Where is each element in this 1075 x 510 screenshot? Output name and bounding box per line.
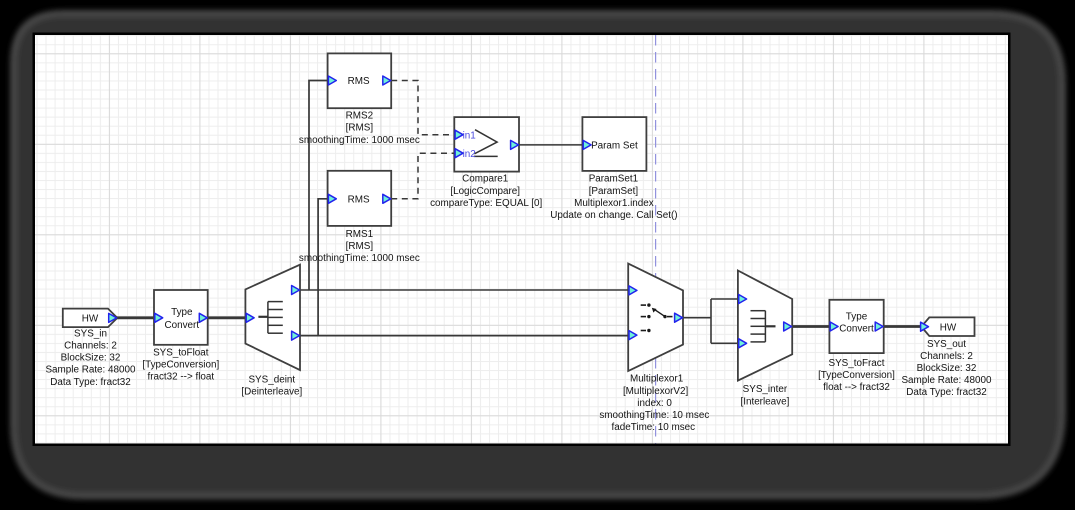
pin Compare1 out: [511, 140, 519, 149]
svg-text:[LogicCompare]: [LogicCompare]: [450, 186, 520, 197]
grid major: [35, 35, 1008, 444]
wire Multiplexor1 out to SYS_inter in1/in2: [683, 299, 738, 343]
svg-text:Data Type: fract32: Data Type: fract32: [906, 387, 987, 398]
svg-text:[ParamSet]: [ParamSet]: [589, 186, 639, 197]
pin SYS_toFract out: [875, 322, 883, 331]
svg-text:Channels: 2: Channels: 2: [64, 341, 117, 352]
pin ParamSet1 in: [583, 140, 591, 149]
svg-text:SYS_in: SYS_in: [74, 328, 107, 339]
deinterleave comb symbol: [258, 302, 282, 334]
svg-text:SYS_toFloat: SYS_toFloat: [153, 347, 209, 358]
wire HW_in to SYS_toFloat: [116, 316, 155, 319]
svg-text:in1: in1: [463, 130, 477, 141]
grid minor: [35, 35, 1008, 444]
svg-text:Sample Rate: 48000: Sample Rate: 48000: [901, 375, 992, 386]
wire Compare1 to ParamSet1: [519, 144, 582, 146]
block HW_in (SYS_in): [63, 309, 118, 328]
captions under blocks: [45, 111, 992, 434]
pin Multiplexor1 in2: [629, 331, 637, 340]
vertical blue dashed guide line: [655, 35, 657, 444]
svg-text:[MultiplexorV2]: [MultiplexorV2]: [623, 386, 689, 397]
pin RMS1 in: [328, 194, 336, 203]
svg-text:[Deinterleave]: [Deinterleave]: [241, 387, 302, 398]
svg-text:Update on change. Call Set(): Update on change. Call Set(): [550, 210, 677, 221]
svg-text:SYS_inter: SYS_inter: [743, 384, 788, 395]
pin RMS1 out: [383, 194, 391, 203]
pin HW_out in: [921, 322, 929, 331]
svg-text:Multiplexor1.index: Multiplexor1.index: [574, 198, 654, 209]
pin Multiplexor1 out: [675, 313, 683, 322]
svg-text:smoothingTime: 1000 msec: smoothingTime: 1000 msec: [299, 135, 420, 146]
block SYS_toFract: [829, 300, 883, 353]
block Compare1: [454, 117, 519, 172]
svg-text:[Interleave]: [Interleave]: [740, 396, 789, 407]
svg-text:RMS: RMS: [348, 195, 370, 206]
svg-text:Type: Type: [171, 307, 193, 318]
pin RMS2 out: [383, 76, 391, 85]
pin SYS_inter in2: [739, 339, 747, 348]
block SYS_toFloat: [154, 290, 208, 345]
svg-text:fract32 --> float: fract32 --> float: [147, 372, 214, 383]
pin Multiplexor1 in1: [629, 286, 637, 295]
pin SYS_toFloat out: [199, 313, 207, 322]
svg-text:[RMS]: [RMS]: [346, 123, 374, 134]
block RMS2: [328, 53, 392, 108]
svg-text:RMS: RMS: [348, 76, 370, 87]
pin HW_in out: [109, 313, 117, 322]
svg-text:compareType: EQUAL [0]: compareType: EQUAL [0]: [430, 198, 542, 209]
compare chevron symbol: [474, 130, 498, 157]
svg-text:Data Type: fract32: Data Type: fract32: [50, 377, 131, 388]
pin SYS_deint in: [246, 313, 254, 322]
svg-text:smoothingTime: 10 msec: smoothingTime: 10 msec: [599, 410, 709, 421]
svg-text:[RMS]: [RMS]: [346, 241, 374, 252]
pin SYS_inter in1: [739, 295, 747, 304]
pin Compare1 in1: [455, 130, 463, 139]
svg-text:RMS2: RMS2: [346, 111, 373, 122]
pins (aqua triangles with blue border): [109, 76, 929, 348]
wire branch to RMS1: [318, 199, 328, 336]
svg-text:Convert: Convert: [165, 320, 200, 331]
pin SYS_deint out2: [292, 331, 300, 340]
svg-text:index: 0: index: 0: [637, 398, 672, 409]
wire SYS_deint out1 to Multiplexor1 in1: [299, 289, 629, 291]
svg-text:Channels: 2: Channels: 2: [920, 351, 973, 362]
pin SYS_deint out1: [292, 286, 300, 295]
svg-text:SYS_deint: SYS_deint: [248, 374, 295, 385]
pin SYS_toFloat in: [155, 313, 163, 322]
svg-text:Convert: Convert: [839, 324, 874, 335]
block SYS_deint (Deinterleave trapezoid): [245, 265, 300, 370]
wire SYS_toFloat to SYS_deint: [207, 316, 247, 319]
svg-text:HW: HW: [940, 322, 957, 333]
block ParamSet1: [582, 117, 646, 171]
block HW_out (SYS_out): [921, 317, 974, 336]
block RMS1: [328, 171, 392, 226]
svg-text:BlockSize: 32: BlockSize: 32: [917, 363, 977, 374]
svg-text:[TypeConversion]: [TypeConversion]: [142, 359, 219, 370]
pin SYS_toFract in: [830, 322, 838, 331]
svg-text:RMS1: RMS1: [346, 229, 374, 240]
interleave comb symbol: [751, 311, 776, 342]
canvas with border: [34, 34, 1010, 445]
pin RMS2 in: [328, 76, 336, 85]
pin labels in1 in2: [463, 130, 477, 160]
pin Compare1 in2: [455, 149, 463, 158]
svg-text:fadeTime: 10 msec: fadeTime: 10 msec: [611, 422, 695, 433]
wire RMS2 to Compare1 in1 (control, dashed): [391, 81, 454, 135]
multiplexor switch symbol: [641, 303, 673, 332]
svg-text:Compare1: Compare1: [462, 174, 509, 185]
svg-text:BlockSize: 32: BlockSize: 32: [61, 353, 121, 364]
svg-text:SYS_out: SYS_out: [927, 339, 966, 350]
svg-text:HW: HW: [82, 314, 99, 325]
svg-text:float --> fract32: float --> fract32: [823, 382, 890, 393]
block SYS_inter (Interleave trapezoid): [738, 271, 792, 381]
in-block texts: [82, 76, 957, 334]
svg-text:Param Set: Param Set: [591, 141, 638, 152]
svg-text:Multiplexor1: Multiplexor1: [630, 374, 684, 385]
svg-text:SYS_toFract: SYS_toFract: [829, 358, 885, 369]
pin SYS_inter out: [784, 322, 792, 331]
wire SYS_deint out2 to Multiplexor1 in2: [299, 335, 629, 337]
wire SYS_inter to SYS_toFract: [791, 325, 830, 328]
wire RMS1 to Compare1 in2 (control, dashed): [391, 153, 454, 199]
svg-text:in2: in2: [463, 149, 476, 160]
block Multiplexor1 (trapezoid): [628, 264, 683, 371]
wire branch to RMS2: [309, 81, 328, 291]
svg-text:ParamSet1: ParamSet1: [589, 174, 639, 185]
svg-text:Sample Rate: 48000: Sample Rate: 48000: [45, 365, 136, 376]
wire SYS_toFract to HW_out: [883, 325, 921, 328]
svg-text:smoothingTime: 1000 msec: smoothingTime: 1000 msec: [299, 253, 420, 264]
svg-text:Type: Type: [846, 311, 868, 322]
svg-text:[TypeConversion]: [TypeConversion]: [818, 370, 895, 381]
